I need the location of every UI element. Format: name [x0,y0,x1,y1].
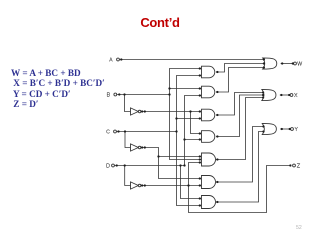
terminal dot Z [289,164,291,166]
node A terminal dot [120,58,122,60]
wire G5 output riser to OR X bottom [216,98,264,160]
wire D inverter feed [125,166,131,186]
inverter for C (NOT gate) [131,144,139,151]
output terminal Z [293,164,296,167]
and-gate G5 BC&apos;D&apos; [202,153,216,166]
or Y pin dots [262,125,264,127]
and-gate G2 BD [202,86,215,98]
or-gate W output [263,58,277,69]
label input D [107,164,110,168]
wire G4 output riser to OR X middle [216,95,265,137]
node B bus junctions [168,87,170,89]
terminal dot W [292,62,294,64]
node C bus junctions [175,117,177,119]
node B terminal dots [118,93,120,95]
node B-prime bus junction [189,110,191,112]
or-gate X output [262,89,276,100]
wire B bus down to gate G5 middle [170,95,202,160]
node C-prime bus junction [157,155,159,157]
input terminal B [114,93,117,96]
wire B inverter feed [125,95,131,112]
wire W output [281,63,293,65]
label output Y [295,127,298,131]
wire D branch to gate G4 bottom [185,139,202,141]
wire G1 output riser to OR W middle [216,64,266,73]
wire X output [280,94,289,96]
label output X [295,93,298,97]
wire C bus up to gate G1 bottom [177,76,202,132]
wire D bus down to gate G7 top [181,166,202,199]
wire C input line [116,131,176,133]
terminal dot Y [289,128,291,130]
and-gate G7 CD [202,196,216,209]
node C-prime inverter output dots [141,146,143,148]
wire G7 output riser to OR Y bottom [216,132,265,203]
gate G2 pin dots [199,87,201,89]
gate G3 pin dots [199,110,201,112]
wire D bus up to gate G2 bottom [185,96,202,166]
gate G6 pin dots [199,177,201,179]
node D-prime bus junction [187,184,189,186]
wire B input line [117,94,170,96]
and-gate G6 C&apos;D&apos; [202,176,216,189]
label input B [107,93,109,97]
output terminal Y [291,128,294,131]
wire A input line [119,59,264,61]
or-gate Y output [262,123,276,134]
input terminal A [117,58,120,61]
inverter for D (NOT gate) [131,182,139,189]
wire C-prime branch to gate G5 top [159,156,202,158]
wire C-prime line and bus [141,148,201,179]
wire G3 output riser to OR X top [216,93,264,116]
wire C branch to gate G3 bottom [177,118,202,120]
node B-prime inverter output dots [141,110,143,112]
wire D-prime bus down and Z route [189,166,291,213]
wire B-prime bus to gate G4 top [191,112,202,134]
terminal dot X [288,94,290,96]
node C terminal dots [117,130,119,132]
wire B-prime line to gate G3 top [141,111,201,113]
or X pin dots [262,91,264,93]
wire C inverter feed [125,132,131,148]
input terminal C [114,130,117,133]
gate G7 pin dots [199,197,201,199]
node D terminal dots [116,164,118,166]
wire B branch to gate G2 top [170,88,202,90]
and-gate G3 B&apos;C [202,109,215,121]
wire G2 output riser to OR W bottom [216,68,265,93]
gate G4 pin dots [199,132,201,134]
label input C [107,130,110,133]
node D bus junctions [183,138,185,140]
label input A [110,58,113,62]
node D-prime inverter output dots [141,184,143,186]
wire B bus up to gate G1 top [170,69,202,95]
gate G1 pin dots [199,67,201,69]
wire C bus down to gate G7 bottom [177,132,202,206]
or W pin dots [263,58,265,60]
input terminal D [112,164,115,167]
wire D-prime bus up to gate G5 bottom [189,163,202,186]
and-gate G1 BC [202,66,215,78]
gate G5 pin dots [199,155,201,157]
wire D input line [114,165,184,167]
output terminal W [294,62,297,65]
and-gate G4 B&apos;D [202,131,215,143]
output terminal X [290,94,293,97]
wire D-prime line to gate G6 bottom [141,185,201,187]
label output W [298,62,302,66]
node D down-bus junction [179,164,181,166]
inverter for B (NOT gate) [131,108,139,115]
wire Y output [280,128,290,130]
label output Z [297,164,300,168]
wire G6 output riser to OR Y top [216,127,265,183]
